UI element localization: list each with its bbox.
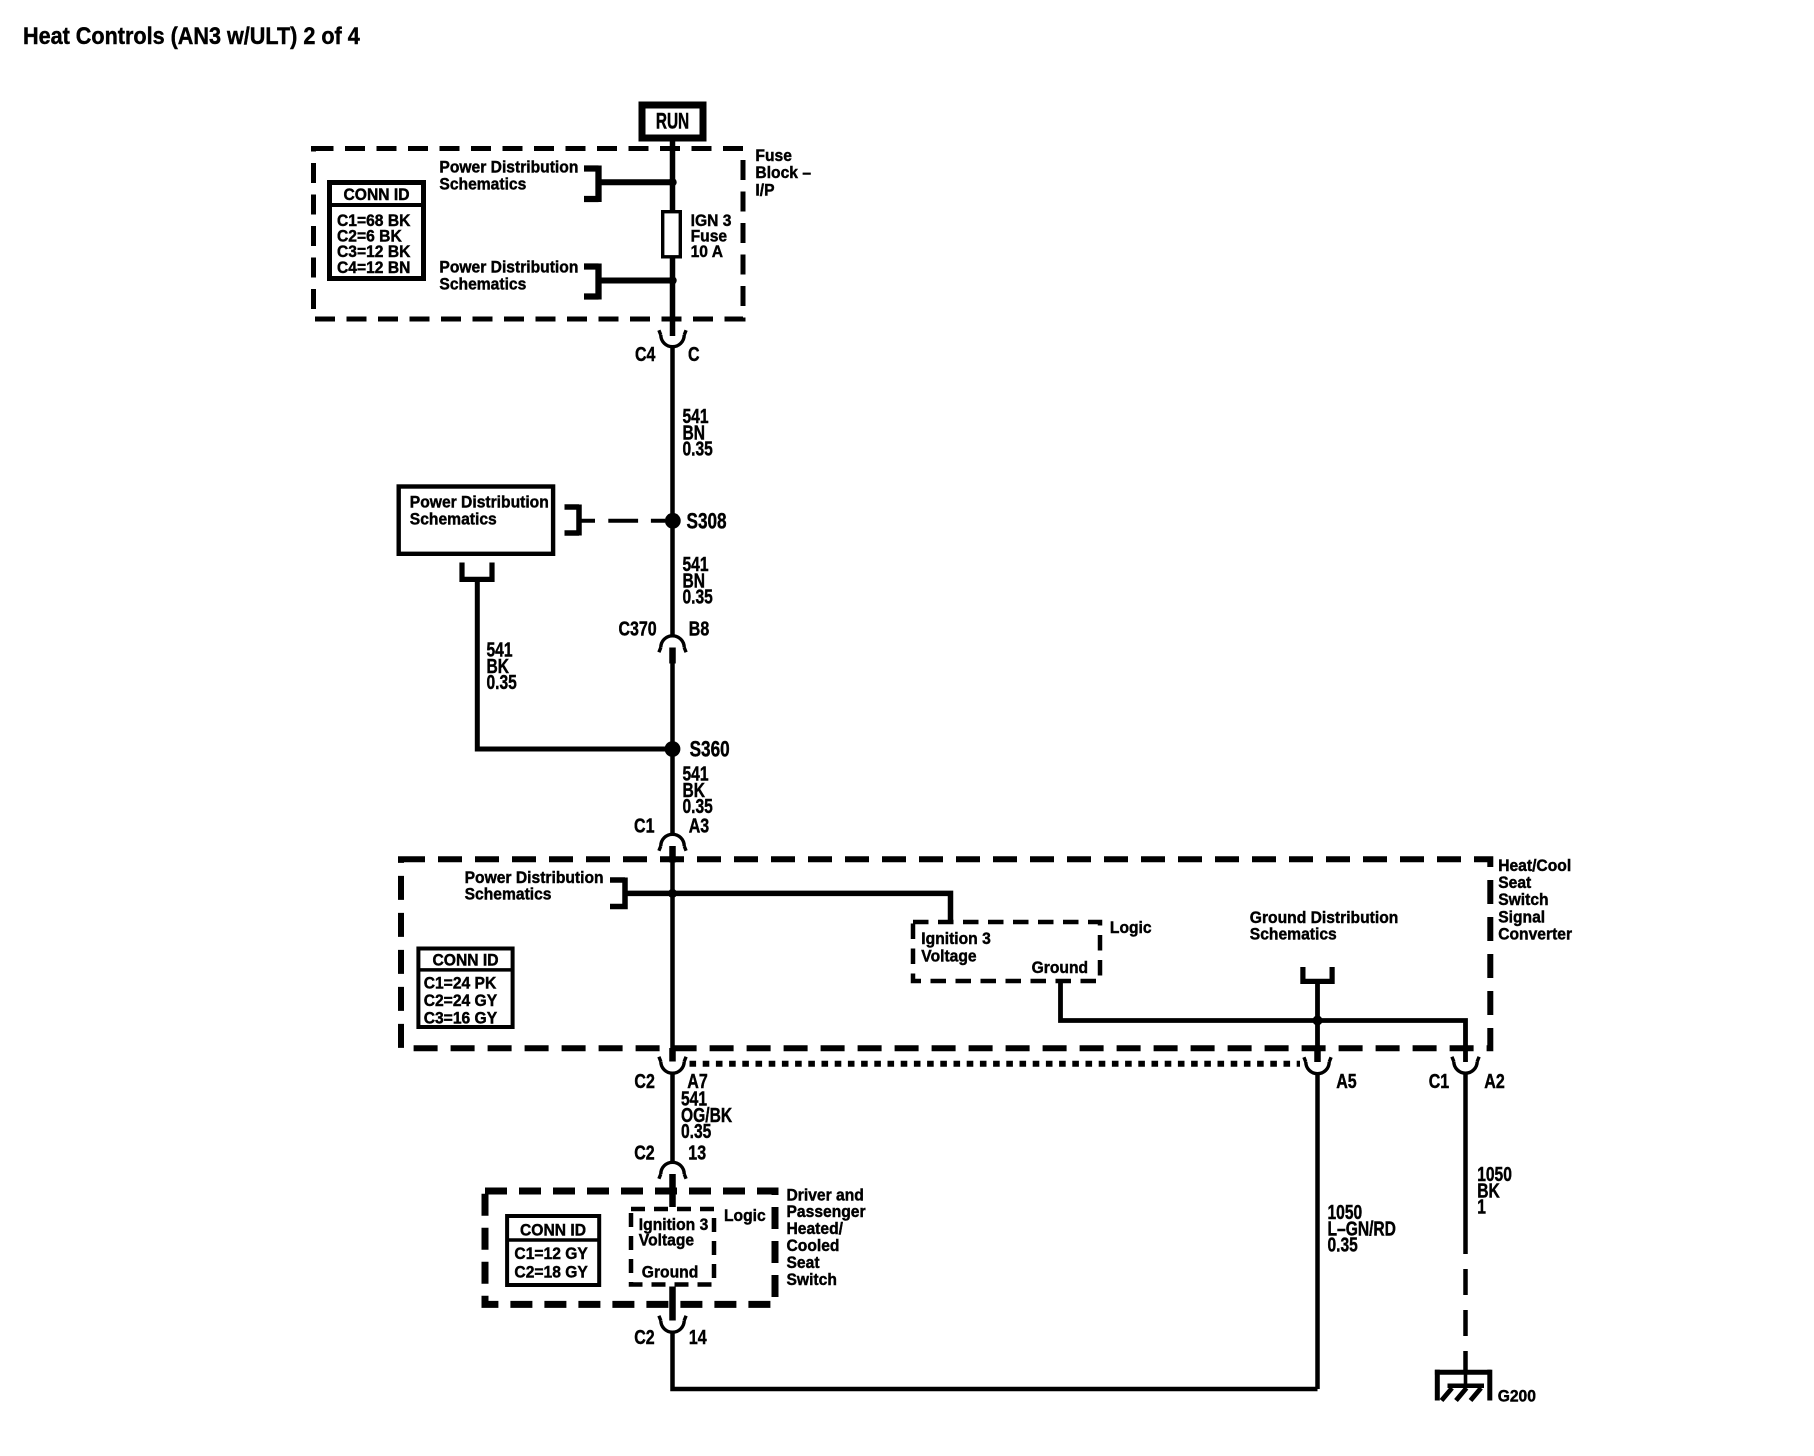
svg-text:CONN ID: CONN ID (343, 185, 409, 204)
svg-text:A3: A3 (689, 815, 709, 837)
svg-text:C2: C2 (634, 1142, 654, 1164)
svg-text:Ground: Ground (1032, 958, 1088, 977)
CONN ID table (fuse block) (330, 183, 424, 279)
connector A5 (1304, 1057, 1331, 1073)
svg-text:S360: S360 (690, 738, 730, 763)
svg-text:A2: A2 (1484, 1070, 1504, 1092)
wire main vertical through converter box (670, 862, 675, 1051)
dashed ref wire to S308 (579, 519, 665, 523)
svg-text:C1: C1 (1429, 1070, 1449, 1092)
wire GDS to junction (1315, 984, 1320, 1021)
connector C2/13 (659, 1162, 686, 1179)
wire bracket to Ignition 3 Voltage input (625, 893, 951, 920)
node ground junction (1313, 1016, 1323, 1026)
svg-text:Logic: Logic (724, 1207, 766, 1226)
bracket ref symbol (S308) (565, 505, 580, 536)
svg-text:S308: S308 (687, 509, 727, 534)
wire C2/14 down and across (673, 1333, 1318, 1389)
wire C370 stub (669, 648, 676, 664)
svg-text:C1: C1 (634, 815, 654, 837)
CONN ID table (converter) (418, 949, 512, 1028)
bracket ref symbol (converter) (610, 878, 625, 910)
svg-text:A5: A5 (1336, 1070, 1356, 1092)
node junction upper (668, 178, 676, 186)
Ignition 3 Voltage logic dashed box (converter) (913, 922, 1100, 981)
svg-text:B8: B8 (689, 618, 709, 640)
connector C2/A7 (659, 1057, 686, 1074)
wire C4 to S308 (670, 346, 675, 521)
svg-text:C2: C2 (634, 1070, 654, 1092)
connector face dotted line (690, 1061, 1301, 1067)
Heat/Cool Seat Switch Signal Converter dashed box (401, 859, 1490, 1048)
fuse IGN 3 10A (663, 212, 681, 257)
CONN ID table (switch) (507, 1216, 599, 1285)
wire PDS branch to S360 (477, 582, 668, 749)
wire C2/14 stub (669, 1287, 676, 1321)
svg-text:C1=68 BKC2=6 BKC3=12 BKC4=12 B: C1=68 BKC2=6 BKC3=12 BKC4=12 BN (337, 211, 411, 277)
wire C1/A3 stub (669, 846, 676, 863)
svg-text:Ground: Ground (642, 1263, 698, 1282)
bracket ref symbol (lower) (584, 264, 599, 300)
wire S360 to C1/A3 (670, 749, 675, 834)
wire C2/A7 stub (669, 1048, 676, 1062)
svg-text:C1=24 PKC2=24 GYC3=16 GY: C1=24 PKC2=24 GYC3=16 GY (424, 974, 498, 1028)
Ignition 3 Voltage logic dashed box (switch) (631, 1209, 714, 1285)
ground G200 symbol (1435, 1370, 1491, 1401)
Power Distribution Schematics box (solid) (399, 487, 553, 554)
svg-text:C1=12 GYC2=18 GY: C1=12 GYC2=18 GY (514, 1244, 588, 1281)
fuse block I/P dashed box (314, 149, 744, 320)
svg-text:C4: C4 (635, 343, 655, 365)
wire A5 down (1315, 1074, 1320, 1389)
wire Ground to A5/A2 (1061, 981, 1466, 1062)
node crossing junction (668, 889, 677, 898)
svg-text:C370: C370 (618, 618, 656, 640)
ignition switch RUN box (642, 105, 703, 138)
connector C2/14 (659, 1316, 686, 1333)
svg-text:13: 13 (688, 1142, 706, 1164)
wire A5 stub (1314, 1048, 1321, 1062)
svg-text:RUN: RUN (656, 110, 689, 134)
connector C370/B8 (659, 636, 686, 653)
svg-text:C2: C2 (634, 1326, 654, 1348)
splice S360 (665, 741, 681, 757)
svg-text:14: 14 (689, 1326, 707, 1348)
wire bracket to fuse output (lower) (599, 278, 673, 284)
wire C2/13 stub to switch (669, 1174, 676, 1207)
wire S308 to C370 (670, 521, 675, 635)
svg-text:Heat Controls (AN3 w/ULT) 2 of: Heat Controls (AN3 w/ULT) 2 of 4 (23, 22, 360, 49)
splice S308 (665, 513, 681, 529)
connector C4/C (659, 330, 686, 347)
wire bracket to IGN3 feed (upper) (599, 179, 673, 185)
wire RUN to fuse (670, 141, 676, 212)
svg-text:G200: G200 (1498, 1387, 1536, 1406)
wire C370 to S360 (670, 664, 675, 750)
bracket cup under GDS (1303, 967, 1332, 981)
wire junction down to A5 (1315, 1021, 1320, 1049)
svg-text:CONN ID: CONN ID (432, 951, 498, 970)
wire A2 down solid (1463, 1074, 1468, 1229)
node junction lower (668, 276, 676, 284)
svg-text:CONN ID: CONN ID (520, 1221, 586, 1240)
wire C2/A7 to C2/13 (670, 1074, 675, 1163)
connector C1/A3 (659, 834, 686, 851)
bracket cup under PDS box (462, 563, 492, 580)
wire A2 dashed to G200 (1463, 1228, 1468, 1370)
bracket ref symbol (upper) (584, 166, 599, 203)
connector A2 (1452, 1057, 1479, 1073)
svg-text:C: C (688, 343, 700, 365)
Driver/Passenger seat switch dashed box (485, 1191, 775, 1304)
wire fuse to connector C4 (670, 257, 676, 336)
svg-text:Logic: Logic (1110, 918, 1152, 937)
